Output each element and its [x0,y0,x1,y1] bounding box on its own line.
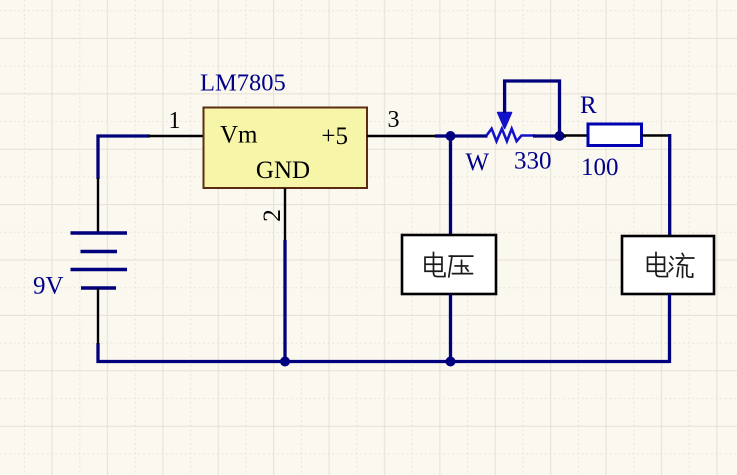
ammeter box 电流 [622,236,714,294]
svg-text:100: 100 [581,154,619,181]
node D junction (GND to rail) [280,357,290,367]
bottom rail wire [98,343,670,362]
wire battery+ to pin1 [98,136,150,179]
node B junction [555,131,565,141]
wire pin3 to node A [435,134,451,137]
svg-text:330: 330 [514,148,552,175]
wire node A to potentiometer [451,134,488,137]
svg-text:1: 1 [169,108,181,134]
glyph ya [449,256,473,277]
wire GND pin2 to rail [283,240,286,362]
battery BT 9V [71,178,128,344]
pin 2 of U1 [284,188,286,242]
wire node B to resistor R [560,134,567,137]
svg-text:W: W [466,149,490,176]
node A junction [446,131,456,141]
svg-text:2: 2 [257,209,286,222]
svg-text:GND: GND [256,157,310,184]
wire ammeter to bottom rail [668,294,671,363]
glyph dian [648,252,668,276]
potentiometer W 330 [487,113,536,142]
resistor R 100 [588,124,642,146]
wire voltmeter to node C [449,294,452,363]
pin 1 of U1 [148,135,204,137]
svg-text:+5: +5 [321,123,348,150]
wire resistor to ammeter [642,134,670,137]
svg-text:3: 3 [388,107,400,133]
svg-text:Vm: Vm [220,122,258,149]
pin 3 of U1 [367,135,437,137]
voltmeter box 电压 [402,235,496,294]
wiper wire loop [505,81,560,136]
svg-text:9V: 9V [33,273,64,300]
glyph liu [669,254,693,278]
glyph dian [425,252,445,276]
node C junction [446,357,456,367]
wire node A to voltmeter [449,136,452,236]
regulator U1 LM7805 body [204,108,368,189]
svg-text:R: R [580,92,597,119]
wire potentiometer to node B [533,134,560,137]
svg-text:LM7805: LM7805 [200,70,286,97]
